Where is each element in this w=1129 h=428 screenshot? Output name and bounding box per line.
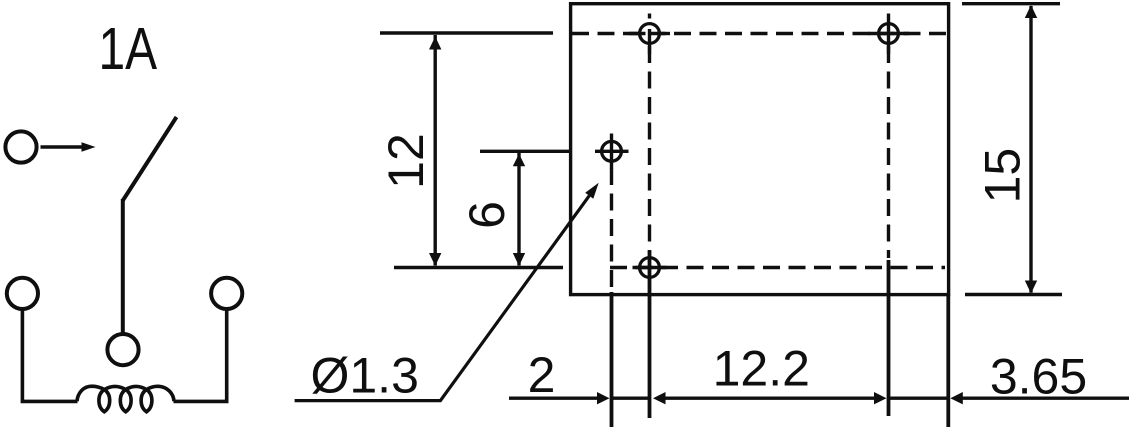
extension line right column down [887, 260, 891, 416]
arrow actuation [41, 142, 96, 152]
hole H1 top-left [629, 14, 670, 55]
svg-text:2: 2 [528, 347, 556, 403]
relay body outline [571, 4, 949, 295]
svg-text:3.65: 3.65 [990, 348, 1087, 404]
dimension line 6 [513, 153, 525, 266]
hole H4 bottom-left [633, 258, 667, 278]
extension line dim15 top [962, 2, 1060, 5]
svg-text:1A: 1A [99, 16, 158, 82]
switch blade [123, 117, 177, 201]
dimension line 15 [1025, 5, 1037, 294]
extension line hole3 column down [610, 292, 614, 427]
hole H3 mid-left [595, 134, 629, 169]
centerline dashed left column [648, 46, 651, 252]
dimension line 12 [429, 35, 441, 266]
extension line dim15 bottom [965, 293, 1062, 296]
extension line dim6 top [480, 150, 569, 153]
extension line dim12 top [380, 31, 553, 34]
extension line body right edge down [946, 295, 950, 427]
coil L1 [77, 386, 174, 412]
svg-text:Ø1.3: Ø1.3 [310, 348, 418, 404]
dimension line 12.2-3.65 joint [889, 397, 949, 400]
dimension line 12.2 [653, 392, 887, 404]
extension line hole4 column down [648, 251, 652, 419]
centerline dashed top row [572, 32, 946, 35]
wire coil-left [22, 309, 77, 401]
svg-text:12.2: 12.2 [713, 340, 810, 396]
centerline dashed hole3 column [610, 168, 613, 292]
centerline dashed right column [887, 46, 890, 258]
wire contact vertical [121, 199, 125, 335]
leader line for hole diameter [295, 183, 599, 401]
terminal circle coil-right [211, 278, 242, 309]
terminal circle coil-left [7, 278, 38, 309]
svg-text:6: 6 [459, 201, 515, 229]
dimension line 3.65 (tail right) [950, 392, 1129, 404]
svg-text:15: 15 [975, 148, 1031, 204]
dimension line 2 (tail left) [509, 392, 650, 404]
centerline dashed bottom row [610, 266, 945, 269]
hole H2 top-right [868, 14, 909, 55]
terminal circle COM [107, 334, 138, 365]
extension line dim12 bottom [394, 266, 563, 269]
wire coil-right [174, 309, 227, 401]
svg-text:12: 12 [378, 133, 434, 189]
terminal circle NO (movable contact input) [5, 131, 36, 162]
